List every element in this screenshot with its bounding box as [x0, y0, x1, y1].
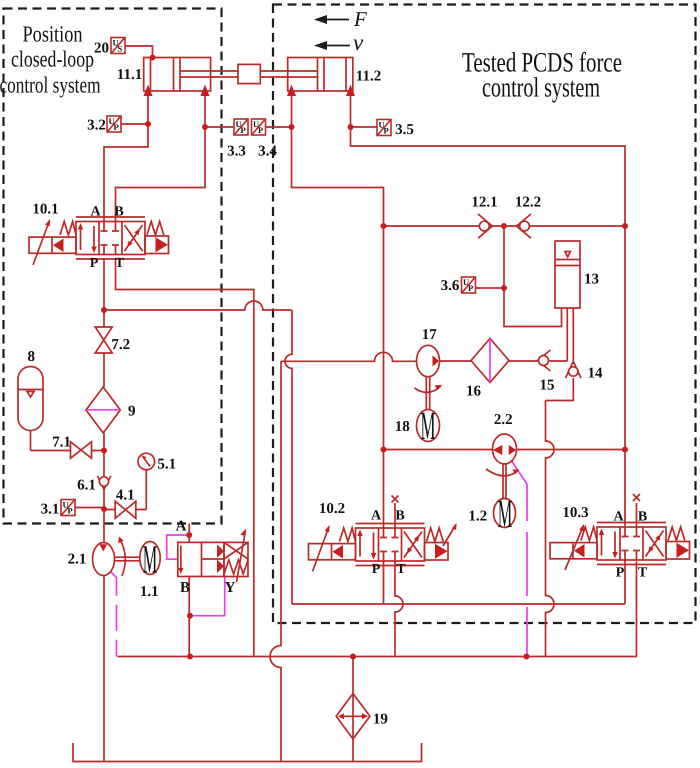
svg-text:Position: Position: [23, 22, 83, 47]
svg-text:3.2: 3.2: [87, 118, 106, 134]
svg-text:control system: control system: [0, 73, 101, 98]
svg-text:A: A: [90, 205, 101, 220]
svg-text:M: M: [421, 403, 436, 448]
svg-text:12.1: 12.1: [471, 195, 497, 211]
svg-text:16: 16: [466, 384, 482, 400]
svg-text:A: A: [371, 509, 382, 524]
svg-text:17: 17: [422, 327, 438, 343]
svg-text:7.1: 7.1: [52, 435, 71, 451]
svg-text:3.4: 3.4: [258, 144, 277, 160]
svg-text:20: 20: [94, 41, 109, 57]
svg-text:P: P: [468, 283, 473, 293]
svg-text:3.3: 3.3: [227, 144, 246, 160]
svg-text:P: P: [372, 562, 381, 577]
svg-text:18: 18: [395, 419, 410, 435]
svg-text:B: B: [180, 580, 190, 596]
svg-text:3.5: 3.5: [395, 122, 414, 138]
svg-text:3.6: 3.6: [441, 278, 460, 294]
svg-text:B: B: [395, 509, 404, 524]
svg-text:B: B: [638, 510, 647, 525]
svg-text:P: P: [90, 256, 99, 271]
svg-text:11.2: 11.2: [356, 69, 381, 85]
svg-text:F: F: [353, 7, 367, 31]
svg-text:2.2: 2.2: [494, 412, 513, 428]
svg-text:T: T: [115, 256, 125, 271]
svg-text:5.1: 5.1: [157, 457, 176, 473]
svg-text:P: P: [241, 125, 246, 135]
svg-text:S: S: [118, 44, 123, 54]
svg-text:T: T: [638, 566, 648, 581]
svg-text:8: 8: [27, 349, 35, 365]
svg-text:A: A: [176, 519, 187, 535]
svg-text:14: 14: [588, 366, 604, 382]
svg-text:P: P: [384, 126, 389, 136]
svg-text:Y: Y: [225, 580, 236, 596]
svg-text:1.1: 1.1: [140, 584, 159, 600]
svg-text:T: T: [396, 562, 406, 577]
svg-text:3.1: 3.1: [41, 502, 60, 518]
svg-text:13: 13: [584, 272, 599, 288]
svg-text:1.2: 1.2: [468, 509, 487, 525]
svg-text:P: P: [68, 506, 73, 516]
svg-text:4.1: 4.1: [116, 488, 135, 504]
svg-text:10.1: 10.1: [32, 202, 58, 218]
svg-text:19: 19: [373, 712, 388, 728]
svg-text:7.2: 7.2: [111, 337, 130, 353]
svg-text:P: P: [258, 125, 263, 135]
svg-text:10.2: 10.2: [319, 501, 345, 517]
svg-text:P: P: [616, 566, 625, 581]
svg-text:closed-loop: closed-loop: [11, 47, 94, 72]
svg-text:B: B: [114, 205, 123, 220]
svg-text:6.1: 6.1: [77, 478, 96, 494]
svg-text:control system: control system: [482, 73, 600, 104]
svg-text:12.2: 12.2: [515, 195, 541, 211]
svg-text:15: 15: [540, 378, 555, 394]
svg-text:P: P: [114, 122, 119, 132]
svg-text:11.1: 11.1: [117, 67, 142, 83]
svg-text:M: M: [498, 491, 513, 536]
svg-text:A: A: [613, 510, 624, 525]
svg-text:10.3: 10.3: [562, 505, 588, 521]
svg-text:2.1: 2.1: [68, 552, 87, 568]
svg-text:9: 9: [128, 404, 136, 420]
svg-text:v: v: [353, 30, 364, 55]
svg-text:M: M: [143, 537, 158, 582]
